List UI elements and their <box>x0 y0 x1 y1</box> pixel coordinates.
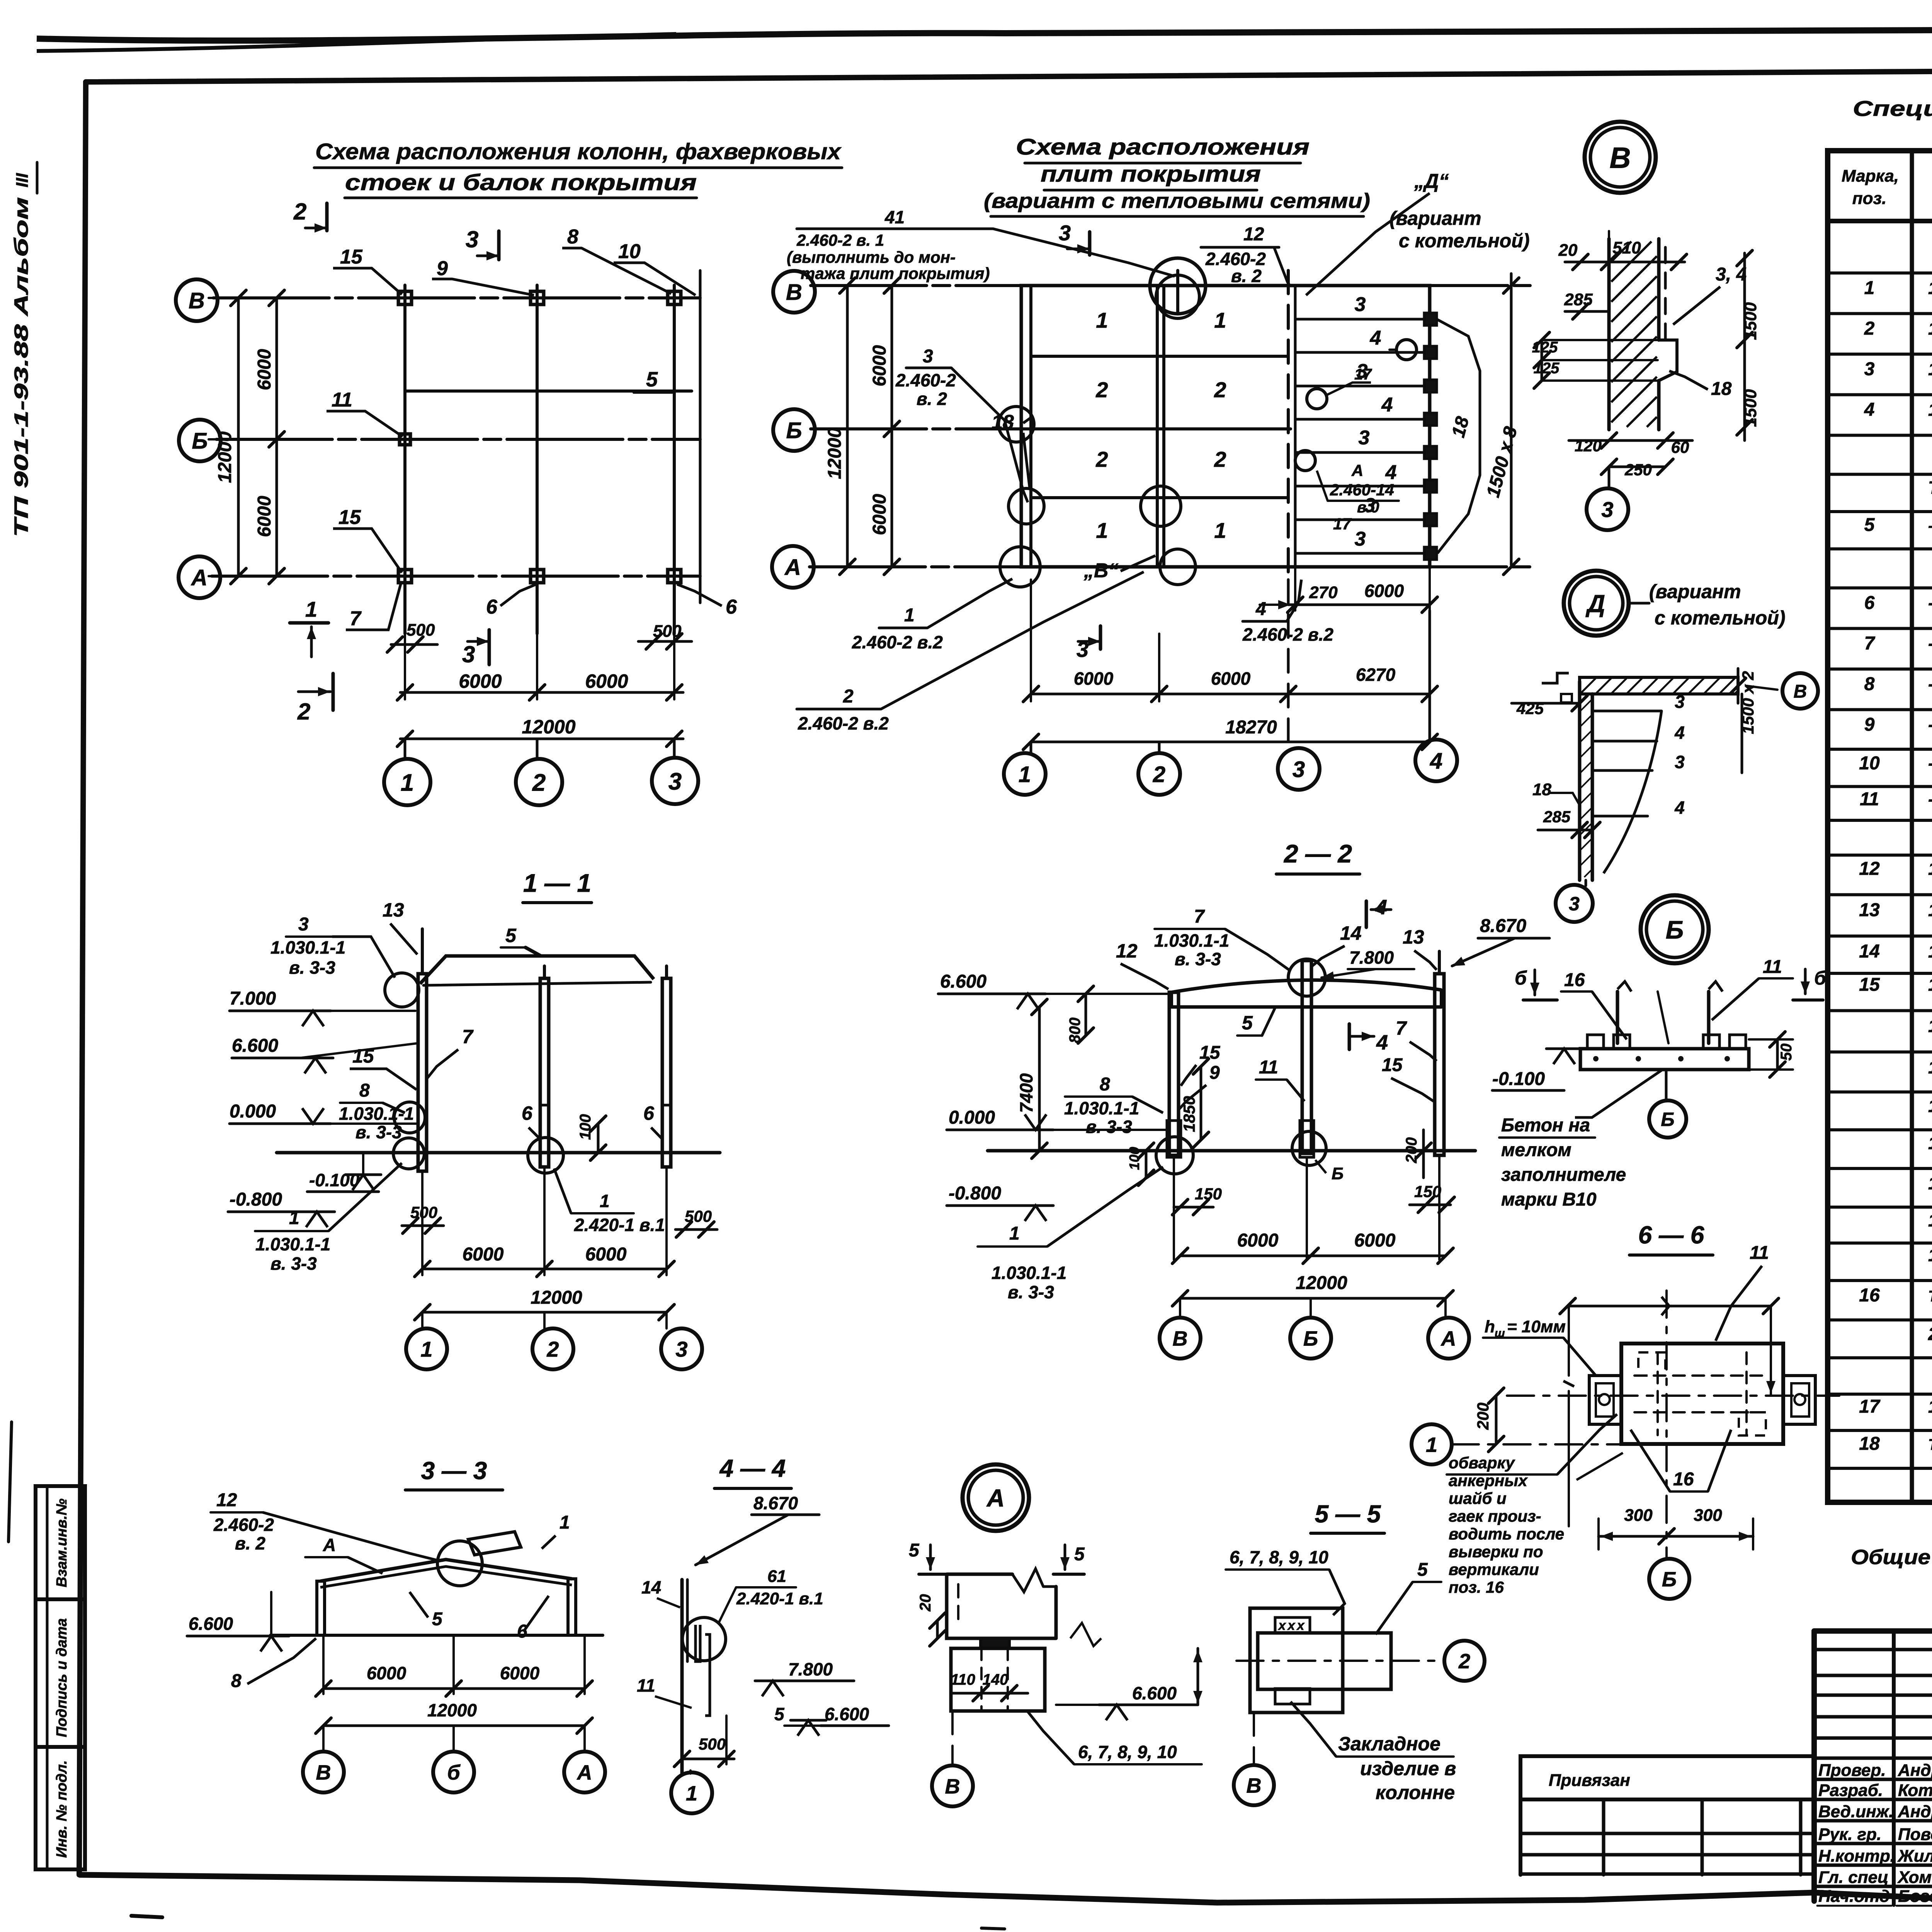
plan2 axis circle В <box>773 271 815 313</box>
svg-text:6: 6 <box>522 1102 533 1124</box>
svg-text:6: 6 <box>643 1102 655 1124</box>
svg-text:12000: 12000 <box>427 1700 477 1720</box>
svg-text:4: 4 <box>1381 394 1393 416</box>
svg-text:3: 3 <box>1675 692 1685 712</box>
svg-text:Б: Б <box>1662 1568 1677 1591</box>
left margin inner line <box>46 1486 49 1869</box>
svg-text:6.600: 6.600 <box>232 1036 278 1056</box>
svg-text:6: 6 <box>486 596 498 618</box>
privyazan grid below <box>1520 1832 1814 1835</box>
svg-text:6.600: 6.600 <box>189 1614 233 1634</box>
svg-text:в. 3-3: в. 3-3 <box>1086 1117 1132 1137</box>
svg-text:14: 14 <box>1340 922 1362 944</box>
drawing frame bottom border <box>79 1875 1932 1903</box>
spec table row divider 1 <box>1828 272 1932 275</box>
plan1 axis circle А <box>179 556 220 598</box>
spec table row divider 17 <box>1828 893 1932 896</box>
svg-text:285: 285 <box>1564 290 1593 309</box>
svg-text:20: 20 <box>1558 241 1578 260</box>
spec table row divider 21 <box>1828 1051 1932 1054</box>
svg-text:1.465.1-10/82 в.1: 1.465.1-10/82 в.1 <box>1928 359 1932 379</box>
section 3-3 right column <box>568 1579 576 1635</box>
svg-text:Б: Б <box>1332 1164 1344 1183</box>
svg-text:13: 13 <box>1859 900 1880 920</box>
svg-text:Б: Б <box>1303 1327 1318 1350</box>
svg-text:12: 12 <box>1859 859 1880 879</box>
svg-text:14: 14 <box>641 1577 661 1597</box>
svg-text:3: 3 <box>466 226 478 252</box>
svg-text:-0.100: -0.100 <box>309 1170 360 1190</box>
plan2 plate joint vertical at axis 2 <box>1156 286 1159 567</box>
svg-text:Андреева: Андреева <box>1898 1802 1932 1821</box>
svg-text:5: 5 <box>909 1540 920 1561</box>
spec table row divider 26 <box>1828 1242 1932 1245</box>
plan2 grid circle 1 <box>1030 742 1032 753</box>
svg-text:1.030.1-1.4-020-05: 1.030.1-1.4-020-05 <box>1928 900 1932 920</box>
detail 6-6 centerlines <box>1507 1395 1839 1397</box>
svg-text:3: 3 <box>1359 427 1370 449</box>
section 2-2 dims 6000 6000 <box>1173 1157 1175 1260</box>
svg-text:2: 2 <box>1095 447 1108 471</box>
svg-text:Нач.отд: Нач.отд <box>1818 1887 1890 1906</box>
svg-text:8: 8 <box>231 1671 241 1691</box>
svg-text:500: 500 <box>699 1735 726 1753</box>
plan2 axis circle А <box>772 546 814 588</box>
svg-text:6000: 6000 <box>463 1244 504 1265</box>
svg-text:Разраб.: Разраб. <box>1818 1781 1883 1800</box>
detail Б column shaft <box>1616 992 1619 1043</box>
svg-text:(вариант: (вариант <box>1389 207 1481 229</box>
svg-text:3: 3 <box>1569 893 1580 915</box>
detail 6-6 top dimension line <box>1568 1305 1771 1308</box>
svg-text:285: 285 <box>1543 808 1571 826</box>
detail 5-5 column section <box>1250 1608 1343 1713</box>
svg-text:0.000: 0.000 <box>949 1107 995 1128</box>
svg-text:шайб и: шайб и <box>1449 1489 1507 1507</box>
plan1 fachwerk post at Б/1 <box>400 434 410 445</box>
svg-text:12: 12 <box>1243 224 1264 245</box>
svg-text:7400: 7400 <box>1016 1073 1036 1113</box>
svg-text:300: 300 <box>1694 1506 1722 1525</box>
svg-text:Подпись и дата: Подпись и дата <box>54 1618 70 1737</box>
svg-text:2.420-1 в.1: 2.420-1 в.1 <box>574 1215 665 1235</box>
svg-text:1500: 1500 <box>1741 389 1760 427</box>
section 4-4 rail detail <box>696 1625 700 1662</box>
svg-text:ТП 901-1-93.88 Альбом: ТП 901-1-93.88 Альбом <box>10 197 32 537</box>
svg-text:Провер.: Провер. <box>1818 1761 1886 1780</box>
svg-text:1 — 1: 1 — 1 <box>523 869 591 897</box>
section 3-3 left column <box>317 1581 325 1635</box>
privyazan box <box>1520 1756 1814 1799</box>
svg-text:Поволяева: Поволяева <box>1898 1825 1932 1844</box>
svg-text:17: 17 <box>1333 515 1352 533</box>
svg-text:1: 1 <box>1009 1223 1020 1244</box>
svg-text:тажа плит покрытия): тажа плит покрытия) <box>801 264 990 282</box>
plan2 bottom dim 270 6000 <box>1294 567 1296 611</box>
plan2 left dimension 6000+6000 <box>891 286 893 567</box>
svg-text:В: В <box>1610 141 1631 174</box>
svg-text:6.600: 6.600 <box>1132 1683 1177 1703</box>
detail 5-5 anchors <box>1275 1617 1310 1633</box>
section 1-1 column 2 <box>540 978 549 1167</box>
svg-text:ТП901-1-93.88-КЖИ1-ОП1: ТП901-1-93.88-КЖИ1-ОП1 <box>1928 1436 1932 1453</box>
plan2 axis line В <box>811 284 1530 287</box>
svg-text:Жило: Жило <box>1897 1847 1932 1866</box>
spec table row divider 11 <box>1828 668 1932 671</box>
svg-text:2: 2 <box>546 1337 559 1361</box>
svg-text:1: 1 <box>1214 518 1226 543</box>
svg-text:(вариант с тепловыми сетями): (вариант с тепловыми сетями) <box>984 189 1370 213</box>
svg-text:5: 5 <box>774 1704 785 1724</box>
scan specks bottom <box>131 1916 162 1917</box>
detail Д title circle <box>1564 571 1629 636</box>
svg-text:2.460-14: 2.460-14 <box>1330 481 1394 499</box>
detail В right dim 1500 1500 <box>1743 253 1746 440</box>
svg-text:6270: 6270 <box>1356 665 1396 685</box>
svg-text:11: 11 <box>637 1675 655 1696</box>
section 2-2 dim 7400 <box>1038 1007 1041 1151</box>
detail 6-6 column section rect <box>1621 1344 1783 1444</box>
svg-text:15: 15 <box>352 1045 374 1067</box>
svg-text:17: 17 <box>1859 1396 1881 1417</box>
spec table row divider 18 <box>1828 935 1932 938</box>
svg-text:2: 2 <box>1458 1650 1470 1673</box>
svg-text:800: 800 <box>1066 1017 1083 1043</box>
detail А cut marker 5 right <box>1064 1545 1066 1570</box>
svg-text:1.030.1-1: 1.030.1-1 <box>270 937 345 957</box>
plan1 axis line Б <box>216 438 700 441</box>
svg-text:250: 250 <box>1624 461 1652 479</box>
svg-text:2: 2 <box>1214 447 1226 471</box>
spec table row divider 25 <box>1828 1206 1932 1209</box>
svg-text:Спецификация к схемам распо: Спецификация к схемам расположения колон… <box>1853 96 1932 121</box>
detail 6-6 right anchor plate <box>1783 1376 1815 1424</box>
detail 6-6 right dim line <box>1770 1306 1772 1395</box>
svg-text:1: 1 <box>560 1512 570 1533</box>
svg-text:1.400-7 л3: 1.400-7 л3 <box>1928 1016 1932 1036</box>
svg-text:в. 3-3: в. 3-3 <box>1008 1282 1054 1302</box>
svg-text:3: 3 <box>668 768 682 795</box>
svg-text:7: 7 <box>1864 633 1876 654</box>
section 3-3 roof beam <box>320 1560 572 1581</box>
svg-text:-КЖИ1-1БДР12-3АIVт-1: -КЖИ1-1БДР12-3АIVт-1 <box>1928 517 1932 534</box>
spec table row divider 16 <box>1828 854 1932 857</box>
detail Б leader to concrete note <box>1575 1070 1662 1117</box>
section 1-1 ground line <box>277 1151 720 1155</box>
svg-text:1: 1 <box>305 597 317 621</box>
svg-text:1: 1 <box>686 1782 697 1805</box>
svg-text:6 — 6: 6 — 6 <box>1638 1221 1704 1249</box>
svg-text:Богоявл.: Богоявл. <box>1898 1887 1932 1906</box>
svg-text:15: 15 <box>1382 1055 1403 1075</box>
svg-text:2: 2 <box>532 769 546 796</box>
detail 5-5 grid circle В <box>1253 1713 1255 1764</box>
svg-text:11: 11 <box>1750 1243 1769 1263</box>
plan1 axis line В <box>213 296 700 299</box>
svg-text:18: 18 <box>1532 780 1551 799</box>
svg-text:1.400-7 л.18: 1.400-7 л.18 <box>1928 1245 1932 1265</box>
svg-text:-КЖИ1-К66-6-5: -КЖИ1-К66-6-5 <box>1928 753 1932 773</box>
svg-text:3: 3 <box>923 346 933 367</box>
svg-text:2.420-1 в.1: 2.420-1 в.1 <box>736 1589 823 1608</box>
detail А roof slab <box>947 1574 1056 1638</box>
svg-text:7: 7 <box>350 607 362 630</box>
spec table row divider 24 <box>1828 1167 1932 1170</box>
svg-text:-КЖИ1-К66-6-2: -КЖИ1-К66-6-2 <box>1928 633 1932 653</box>
svg-text:61: 61 <box>767 1567 786 1586</box>
section 4-4 grid circle 1 <box>689 1770 692 1774</box>
plan1 bottom dimension 6000+6000 <box>404 595 406 699</box>
spec table row divider 3 <box>1828 353 1932 356</box>
section 3-3 dim 12000 <box>323 1725 585 1727</box>
svg-text:с котельной): с котельной) <box>1399 230 1530 252</box>
svg-text:1.400-7 л9: 1.400-7 л9 <box>1928 1057 1932 1077</box>
plan2 fastener small circle B <box>1295 451 1315 471</box>
detail Б base plate <box>1580 1049 1749 1070</box>
svg-text:Общие примечания смотреть: Общие примечания смотреть лист 1 <box>1851 1546 1932 1569</box>
section 3-3 apex plate circle <box>437 1541 482 1586</box>
svg-text:8: 8 <box>359 1080 370 1101</box>
section 2-2 grid circles В Б А <box>1179 1298 1181 1318</box>
detail Б cut marker б right <box>1804 969 1807 994</box>
plan1 axis line А <box>212 575 700 578</box>
spec table row divider 9 <box>1828 587 1932 590</box>
section 4-4 wall post <box>680 1580 684 1774</box>
svg-text:4 — 4: 4 — 4 <box>719 1454 786 1482</box>
spec table row divider 19 <box>1828 972 1932 975</box>
svg-text:5: 5 <box>505 925 517 946</box>
svg-text:5: 5 <box>432 1609 443 1629</box>
detail В ledge <box>1659 340 1677 381</box>
detail 6-6 grid circle Б below <box>1665 1444 1668 1558</box>
plan2 boundary dashed at axis 3 <box>1287 270 1290 580</box>
svg-text:2: 2 <box>1214 378 1226 402</box>
svg-text:2.460-2 в.2: 2.460-2 в.2 <box>798 713 889 733</box>
svg-text:4: 4 <box>1674 798 1685 818</box>
svg-text:16: 16 <box>1673 1469 1694 1490</box>
svg-text:обварку: обварку <box>1449 1454 1515 1472</box>
svg-text:500: 500 <box>410 1203 437 1221</box>
svg-text:А: А <box>784 555 801 580</box>
svg-text:1.030.1-1.4-1-010: 1.030.1-1.4-1-010 <box>1928 941 1932 961</box>
svg-text:6000: 6000 <box>459 670 502 692</box>
section 1-1 dims 6000 6000 <box>421 1171 423 1275</box>
detail Д right end tick and circle В <box>1737 668 1740 703</box>
svg-text:2: 2 <box>843 686 854 707</box>
section 2-2 column sleeves <box>1167 1121 1181 1157</box>
detail В wall section outline <box>1607 239 1611 430</box>
plan2 plate left edge double line <box>1029 286 1032 567</box>
svg-text:1: 1 <box>600 1191 610 1211</box>
stamp name rows <box>1814 1778 1932 1781</box>
svg-text:А: А <box>986 1484 1005 1512</box>
section 2-2 column left <box>1169 992 1179 1155</box>
svg-text:6000: 6000 <box>1211 668 1251 689</box>
svg-text:1.400-7 л.17: 1.400-7 л.17 <box>1928 1173 1932 1193</box>
svg-text:1: 1 <box>401 769 414 796</box>
plan2 total dimension 18270 <box>1031 741 1430 743</box>
svg-text:заполнителе: заполнителе <box>1501 1165 1626 1185</box>
svg-text:3: 3 <box>298 914 309 935</box>
svg-text:3: 3 <box>462 641 475 667</box>
section 2-2 dim 12000 <box>1180 1297 1446 1300</box>
svg-text:III: III <box>13 173 32 187</box>
detail А break marks <box>1070 1623 1101 1646</box>
spec table row divider 14 <box>1828 785 1932 788</box>
svg-text:1.465.1-10/82 в.1: 1.465.1-10/82 в.1 <box>1928 318 1932 338</box>
plan2 left dimension 12000 <box>846 286 849 567</box>
plan1 grid circle 2 <box>536 739 539 759</box>
svg-text:h: h <box>1485 1317 1495 1336</box>
svg-text:100: 100 <box>577 1114 594 1140</box>
svg-text:1850: 1850 <box>1180 1096 1198 1132</box>
svg-text:0.000: 0.000 <box>230 1101 276 1122</box>
plan2 plate joint circle at В/2 <box>1150 258 1206 314</box>
section 1-1 dim 12000 <box>422 1311 667 1314</box>
svg-text:1.400-7 л.18: 1.400-7 л.18 <box>1928 1210 1932 1230</box>
detail Б axis circle Б below <box>1665 1070 1668 1100</box>
plan2 axis circle Б <box>773 409 815 451</box>
svg-text:150: 150 <box>1414 1182 1441 1201</box>
plan1 column axis 1 <box>403 285 406 634</box>
section 2-2 dim 800 <box>1085 994 1087 1036</box>
svg-text:200: 200 <box>1403 1137 1420 1163</box>
svg-text:В: В <box>189 288 205 313</box>
svg-text:3: 3 <box>1293 757 1305 782</box>
svg-text:300: 300 <box>1624 1506 1653 1525</box>
svg-text:В: В <box>1247 1774 1262 1797</box>
svg-text:2 — 2: 2 — 2 <box>1283 839 1352 868</box>
svg-text:6.600: 6.600 <box>825 1704 869 1724</box>
svg-text:7: 7 <box>462 1026 474 1048</box>
svg-text:4: 4 <box>1674 723 1685 743</box>
svg-text:12000: 12000 <box>522 716 575 738</box>
svg-text:б: б <box>1515 967 1527 989</box>
plan2 narrow plates right strip rows <box>1295 318 1430 321</box>
plan2 joint circles на axis2 <box>1141 486 1181 526</box>
svg-text:-КЖИ1-К66-6-3: -КЖИ1-К66-6-3 <box>1928 674 1932 694</box>
svg-text:1500 х 8: 1500 х 8 <box>1483 424 1521 499</box>
svg-text:6.600: 6.600 <box>940 971 986 992</box>
plan1 column axis 2 <box>536 285 539 634</box>
svg-text:6, 7, 8, 9, 10: 6, 7, 8, 9, 10 <box>1230 1547 1328 1567</box>
svg-text:3: 3 <box>675 1337 687 1361</box>
svg-text:15: 15 <box>1859 975 1880 995</box>
svg-text:6000: 6000 <box>585 1244 627 1265</box>
svg-text:7.000: 7.000 <box>230 988 276 1009</box>
svg-text:марки В10: марки В10 <box>1501 1189 1597 1210</box>
svg-text:2.460-2: 2.460-2 <box>213 1515 274 1535</box>
svg-text:12: 12 <box>216 1490 237 1510</box>
svg-text:2: 2 <box>1153 762 1165 787</box>
svg-text:Б: Б <box>1661 1109 1674 1130</box>
svg-text:3: 3 <box>1864 359 1875 379</box>
svg-text:20: 20 <box>917 1594 934 1612</box>
detail А beam below <box>951 1648 1045 1711</box>
spec table row divider 4 <box>1828 393 1932 396</box>
svg-text:5: 5 <box>1074 1544 1085 1565</box>
svg-text:2: 2 <box>297 699 310 724</box>
spec table row divider 22 <box>1828 1090 1932 1094</box>
svg-text:поз. 16: поз. 16 <box>1449 1578 1504 1596</box>
spec table row divider 13 <box>1828 748 1932 751</box>
detail Б dim 50 <box>1776 1039 1779 1070</box>
svg-text:5: 5 <box>1864 515 1875 535</box>
svg-text:11: 11 <box>1763 957 1782 977</box>
svg-text:18: 18 <box>1859 1434 1880 1454</box>
svg-text:ТП901-1-93.88-: ТП901-1-93.88- <box>1928 478 1932 498</box>
section 1-1 base circle column1 <box>393 1138 424 1169</box>
svg-text:12000: 12000 <box>1296 1273 1347 1293</box>
section 3-3 grid circles В б А <box>322 1726 325 1750</box>
svg-text:11: 11 <box>1860 789 1879 810</box>
svg-text:-0.800: -0.800 <box>230 1189 282 1210</box>
svg-text:x: x <box>1287 1618 1296 1633</box>
plan1 column at А/2 <box>531 570 544 583</box>
svg-text:Бетон на: Бетон на <box>1501 1115 1590 1136</box>
svg-text:1: 1 <box>420 1337 432 1361</box>
detail В title circle <box>1585 122 1656 193</box>
spec table row divider 23 <box>1828 1128 1932 1131</box>
svg-text:12: 12 <box>1116 940 1138 962</box>
svg-text:15: 15 <box>338 506 361 529</box>
plan1 column K1 at В/1 <box>398 291 412 304</box>
plan1 column at А/3 <box>668 570 681 583</box>
svg-text:Андреева: Андреева <box>1898 1761 1932 1780</box>
plan1 grid circle 1 <box>404 739 406 759</box>
svg-text:13: 13 <box>383 899 404 921</box>
svg-text:3, 4: 3, 4 <box>1716 264 1747 285</box>
svg-text:Б: Б <box>1666 915 1684 944</box>
svg-text:А: А <box>1440 1327 1456 1350</box>
stamp outer border <box>1814 1628 1932 1634</box>
detail 6-6 left broken dim line <box>1568 1306 1570 1376</box>
plan1 axis circle В <box>176 279 218 321</box>
plan2 axis line А <box>810 565 1530 568</box>
spec table column lines <box>1910 151 1914 1502</box>
svg-text:6000: 6000 <box>367 1663 406 1683</box>
detail 5-5 centerline to circle 2 <box>1236 1660 1441 1662</box>
svg-text:6: 6 <box>1864 593 1875 613</box>
svg-text:А: А <box>323 1535 336 1555</box>
svg-text:1.030.1-1.4-1-240: 1.030.1-1.4-1-240 <box>1928 1133 1932 1153</box>
plan1 bottom dimension 12000 <box>400 738 683 740</box>
svg-text:А: А <box>190 565 207 590</box>
svg-text:16: 16 <box>1564 970 1585 990</box>
svg-text:в. 3-3: в. 3-3 <box>270 1253 317 1274</box>
section 2-2 dim 1850 <box>1200 1066 1202 1140</box>
section 1-1 grid circles 1 2 3 <box>421 1312 423 1328</box>
svg-text:б: б <box>447 1761 461 1784</box>
svg-text:18270: 18270 <box>1225 717 1277 738</box>
svg-text:6000: 6000 <box>1237 1230 1279 1251</box>
svg-text:Схема расположения: Схема расположения <box>1016 134 1310 160</box>
svg-text:водить после: водить после <box>1449 1525 1564 1543</box>
svg-text:7: 7 <box>1396 1017 1407 1039</box>
svg-text:Котова: Котова <box>1898 1781 1932 1800</box>
svg-text:-КЖИ1-К66-6-4: -КЖИ1-К66-6-4 <box>1928 714 1932 735</box>
svg-text:поз.: поз. <box>1852 189 1886 208</box>
detail Б title circle <box>1641 895 1709 963</box>
svg-text:-КЖИ1-К66-6-1: -КЖИ1-К66-6-1 <box>1928 593 1932 613</box>
svg-text:В: В <box>786 280 802 305</box>
svg-text:в. 3-3: в. 3-3 <box>1175 949 1221 969</box>
detail А title circle <box>963 1464 1029 1531</box>
svg-text:„Д“: „Д“ <box>1414 170 1449 192</box>
svg-text:4: 4 <box>1376 1031 1388 1054</box>
spec table row divider 29 <box>1828 1356 1932 1359</box>
svg-text:18: 18 <box>1448 414 1473 440</box>
